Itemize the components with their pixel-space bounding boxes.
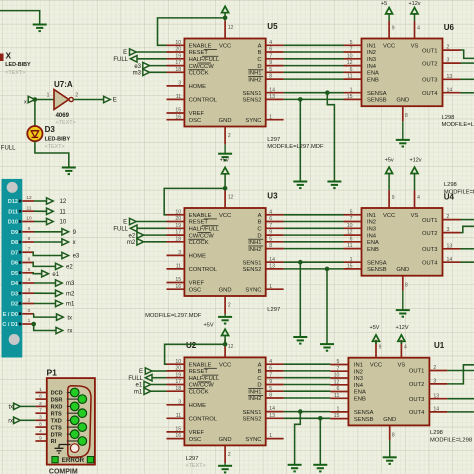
svg-text:VCC: VCC — [370, 363, 382, 369]
svg-text:8: 8 — [39, 422, 42, 428]
svg-text:15: 15 — [175, 108, 181, 114]
svg-text:CONTROL: CONTROL — [189, 267, 218, 273]
svg-text:CLOCK: CLOCK — [189, 71, 209, 77]
svg-text:IN3: IN3 — [354, 376, 363, 382]
svg-text:ENA: ENA — [367, 71, 379, 77]
terminal e1 (U2) — [144, 381, 151, 387]
svg-text:2: 2 — [75, 92, 78, 98]
U5 right pin numbers 4 6 7 9 5 8 14 13 1 — [269, 40, 275, 120]
svg-text:E: E — [123, 220, 127, 226]
svg-text:6: 6 — [269, 47, 272, 53]
svg-text:VS: VS — [398, 363, 406, 369]
svg-text:m1: m1 — [134, 389, 143, 395]
U5 right pin stubs — [266, 45, 284, 119]
terminal FULL (U5) — [130, 56, 137, 62]
svg-text:D6: D6 — [11, 261, 18, 267]
svg-text:U2: U2 — [186, 341, 197, 350]
wire tx to P1 RXD — [20, 405, 35, 407]
svg-text:8: 8 — [28, 236, 31, 242]
svg-text:INH2: INH2 — [248, 247, 261, 253]
svg-text:CLOCK: CLOCK — [189, 389, 209, 395]
U1 left pin stubs — [330, 365, 348, 419]
svg-text:IN2: IN2 — [354, 369, 363, 375]
U1 VS pin stub (pin 4) — [400, 340, 402, 358]
IC U4 L298 body — [362, 208, 443, 276]
svg-text:10: 10 — [175, 209, 181, 215]
svg-text:5: 5 — [337, 359, 340, 365]
svg-text:A: A — [258, 213, 262, 219]
ground (U6 GND pin) — [402, 121, 404, 140]
svg-text:9: 9 — [39, 435, 42, 441]
U2 GND pin stub (pin 2) — [224, 445, 226, 463]
svg-text:X: X — [6, 52, 12, 61]
svg-text:OUT1: OUT1 — [422, 218, 437, 224]
svg-text:13: 13 — [447, 74, 453, 80]
svg-text:12: 12 — [228, 25, 234, 31]
connector mounting hole bottom — [9, 334, 20, 345]
svg-text:SENS2: SENS2 — [242, 98, 261, 104]
wire +12V to U1 VS — [400, 341, 402, 344]
terminal FULL (U3) — [130, 225, 137, 231]
svg-text:SENSB: SENSB — [367, 98, 387, 104]
U1 output pin numbers 2 3 13 14 — [433, 365, 439, 412]
terminal e1 — [42, 271, 49, 277]
junction dot U5 SENS1 sense net — [325, 90, 330, 95]
svg-text:5: 5 — [350, 209, 353, 215]
svg-text:VCC: VCC — [383, 44, 395, 50]
svg-text:12: 12 — [228, 195, 234, 201]
svg-text:9: 9 — [269, 379, 272, 385]
svg-text:FULL: FULL — [1, 146, 16, 152]
svg-text:GND: GND — [383, 417, 396, 423]
svg-text:11: 11 — [334, 393, 339, 399]
svg-text:4: 4 — [269, 209, 272, 215]
svg-text:5: 5 — [269, 386, 272, 392]
U3 left pin numbers 10 20 19 17 18 3 11 15 16 — [175, 209, 181, 289]
svg-text:OUT3: OUT3 — [409, 397, 424, 403]
svg-text:10: 10 — [60, 220, 67, 226]
power +5v terminal above U5 — [222, 6, 229, 12]
svg-text:2: 2 — [447, 214, 450, 220]
svg-text:INH2: INH2 — [248, 77, 261, 83]
wires U2 phase outputs to U1 inputs — [284, 364, 331, 398]
svg-text:14: 14 — [269, 406, 275, 412]
ground (U5 SENS2) — [293, 182, 307, 189]
junction dot U2 SENS2 sense net — [318, 416, 323, 421]
terminal E (U5) — [130, 49, 137, 55]
svg-text:CW/CCW: CW/CCW — [189, 64, 215, 70]
U6 pin labels — [367, 44, 438, 104]
terminal e3 — [62, 252, 69, 258]
svg-text:7: 7 — [28, 246, 31, 252]
svg-text:4: 4 — [39, 429, 42, 435]
wire SENS1 net to ground (U5) — [327, 93, 334, 182]
wire +5v to U2 VCC — [224, 336, 226, 346]
svg-text:OSC: OSC — [189, 118, 202, 124]
svg-text:SENS1: SENS1 — [242, 260, 261, 266]
U1 output pin stubs — [429, 371, 447, 412]
svg-text:SENSA: SENSA — [354, 410, 374, 416]
svg-text:+5v: +5v — [220, 158, 229, 164]
connector pin D11 — [8, 205, 34, 215]
svg-text:+5V: +5V — [204, 322, 214, 328]
wire SENS2 net to ground (U2) — [319, 418, 321, 465]
svg-text:16: 16 — [175, 284, 181, 290]
U4 left pin stubs — [344, 215, 362, 269]
svg-text:IN4: IN4 — [354, 383, 364, 389]
svg-text:D2: D2 — [11, 302, 18, 308]
svg-text:DCD: DCD — [51, 391, 63, 397]
svg-text:IN1: IN1 — [367, 44, 376, 50]
wire junction to LED D3 — [34, 100, 36, 127]
svg-text:16: 16 — [175, 433, 181, 439]
ground (U1 GND pin) — [389, 440, 391, 457]
svg-text:C: C — [257, 227, 261, 233]
svg-text:10: 10 — [175, 359, 181, 365]
ground (U5 GND pin) — [224, 144, 226, 153]
wire 10 from header pin — [34, 221, 47, 223]
svg-text:D5: D5 — [11, 271, 18, 277]
svg-text:GND: GND — [396, 267, 409, 273]
wire U4 OUT2 to motor — [461, 226, 474, 232]
wire m3 to U5 CLOCK — [150, 71, 167, 73]
svg-text:DTR: DTR — [51, 432, 63, 438]
wire +5v to U5 VCC — [224, 13, 226, 21]
U5 right pin labels — [242, 44, 263, 124]
svg-text:19: 19 — [175, 372, 181, 378]
wire U1 OUT4 to motor — [447, 411, 474, 413]
U2 left pin numbers 10 20 19 17 18 3 11 15 16 — [175, 359, 181, 439]
svg-text:L298: L298 — [442, 115, 455, 121]
svg-text:RI: RI — [51, 439, 57, 445]
svg-text:15: 15 — [334, 413, 340, 419]
svg-text:MODFILE=L: MODFILE=L — [444, 190, 474, 196]
svg-text:8: 8 — [392, 432, 395, 438]
svg-text:13: 13 — [433, 393, 439, 399]
svg-text:e2: e2 — [129, 233, 136, 239]
LED X (cropped at edge) — [0, 54, 4, 62]
wire U4 OUT4 to motor — [461, 261, 474, 263]
svg-text:4: 4 — [269, 359, 272, 365]
U6 left pin numbers 5 7 10 12 6 11 1 15 — [347, 40, 353, 100]
svg-text:OUT2: OUT2 — [409, 382, 424, 388]
wire U2 SENS1 to U1 SENSA — [284, 411, 331, 413]
terminal x — [62, 239, 69, 245]
svg-text:1: 1 — [39, 387, 42, 393]
power +5v terminal above U2 — [222, 329, 229, 335]
terminal m2 — [56, 290, 63, 296]
svg-text:SYNC: SYNC — [245, 437, 261, 443]
svg-text:5: 5 — [28, 267, 31, 273]
junction dot U5 SENS2 sense net — [298, 97, 303, 102]
wire 9 from header pin — [34, 231, 62, 233]
svg-text:U3: U3 — [267, 192, 278, 201]
svg-text:m3: m3 — [133, 71, 142, 77]
connector mounting hole top — [7, 182, 18, 193]
svg-text:GND: GND — [219, 287, 232, 293]
svg-text:6: 6 — [39, 394, 42, 400]
svg-text:U6: U6 — [444, 23, 455, 32]
svg-text:11: 11 — [347, 243, 352, 249]
wire U1 OUT2 to motor — [447, 365, 474, 384]
U5 left pin labels — [188, 44, 231, 124]
ground (D3) — [62, 168, 76, 175]
svg-text:OUT4: OUT4 — [422, 91, 438, 97]
svg-text:D: D — [257, 64, 261, 70]
svg-text:D11: D11 — [8, 209, 18, 215]
svg-text:IN1: IN1 — [367, 213, 376, 219]
svg-text:OUT4: OUT4 — [422, 260, 438, 266]
svg-text:10: 10 — [347, 223, 353, 229]
svg-text:rx: rx — [67, 329, 72, 335]
svg-text:8: 8 — [405, 283, 408, 289]
svg-text:14: 14 — [447, 87, 453, 93]
svg-text:VCC: VCC — [219, 362, 231, 368]
svg-text:4: 4 — [417, 26, 420, 32]
svg-text:SENSB: SENSB — [354, 417, 374, 423]
svg-text:+5V: +5V — [370, 325, 380, 331]
svg-text:D: D — [257, 383, 261, 389]
svg-text:1: 1 — [269, 284, 272, 290]
wire SENS2 net to ground (U5) — [299, 99, 301, 181]
svg-text:9: 9 — [379, 345, 382, 351]
junction dot (U2 VCC/ENABLE) — [223, 342, 228, 347]
svg-text:+12v: +12v — [408, 1, 420, 7]
svg-text:SENS2: SENS2 — [242, 417, 261, 423]
svg-text:D4: D4 — [11, 281, 19, 287]
wire E to U5 RESET — [136, 51, 166, 53]
wire FULL to U5 HALF/FULL — [137, 58, 167, 60]
junction dot (U3 VCC/ENABLE) — [223, 186, 228, 191]
terminal tx — [57, 314, 64, 320]
svg-text:GND: GND — [219, 118, 232, 124]
svg-text:1: 1 — [269, 114, 272, 120]
connector pin D9 — [11, 226, 34, 236]
U2 VCC pin stub (pin 12) — [224, 340, 226, 358]
wire +5 to U6 VCC — [388, 14, 390, 21]
svg-text:OUT3: OUT3 — [422, 78, 437, 84]
svg-text:7: 7 — [269, 223, 272, 229]
svg-text:U7:A: U7:A — [54, 80, 73, 89]
svg-text:4: 4 — [28, 277, 31, 283]
IC U6 L298 body — [362, 39, 443, 107]
wire from left edge to ground (top-left) — [0, 11, 40, 25]
ground (U3 SENS1) — [293, 337, 307, 344]
svg-text:<TEXT>: <TEXT> — [56, 120, 76, 126]
U2 left pin stubs — [167, 364, 185, 438]
svg-text:20: 20 — [175, 216, 181, 222]
svg-text:MODFILE=L297.MDF: MODFILE=L297.MDF — [267, 144, 324, 150]
svg-text:1: 1 — [47, 92, 50, 98]
svg-text:HOME: HOME — [189, 84, 207, 90]
svg-text:1: 1 — [350, 257, 353, 263]
svg-text:+12v: +12v — [409, 157, 421, 163]
svg-text:6: 6 — [337, 386, 340, 392]
wire FULL to U3 HALF/FULL — [137, 227, 167, 229]
P1 pin labels DCD DSR RXD RTS TXD CTS DTR RI — [51, 391, 63, 446]
svg-text:B: B — [258, 50, 262, 56]
svg-text:12: 12 — [228, 344, 234, 350]
ground (U2 SENS1) — [288, 465, 302, 472]
svg-text:<TEXT>: <TEXT> — [5, 70, 25, 76]
wire SENS1 net to ground (U2) — [295, 412, 301, 465]
svg-text:D3: D3 — [11, 291, 18, 297]
svg-text:11: 11 — [27, 205, 32, 211]
svg-text:MODFILE=L: MODFILE=L — [442, 122, 474, 128]
terminal 12 — [47, 198, 54, 204]
svg-text:2: 2 — [228, 133, 231, 139]
wire U4 OUT1 to motor — [461, 219, 474, 221]
svg-text:14: 14 — [433, 407, 439, 413]
svg-text:SENS2: SENS2 — [242, 267, 261, 273]
svg-text:12: 12 — [347, 230, 353, 236]
svg-text:HALF/FULL: HALF/FULL — [189, 57, 220, 63]
terminal 9 — [62, 229, 69, 235]
svg-text:15: 15 — [347, 264, 353, 270]
P1 DB9 pin 5 circle (shield) — [70, 444, 79, 453]
svg-text:L297: L297 — [267, 307, 280, 313]
svg-text:13: 13 — [269, 264, 275, 270]
svg-text:9: 9 — [269, 60, 272, 66]
wire +12v to U4 VS — [414, 174, 416, 191]
inverter U7:A — [54, 90, 69, 110]
svg-text:GND: GND — [396, 98, 409, 104]
svg-text:VS: VS — [411, 44, 419, 50]
svg-text:A: A — [258, 44, 262, 50]
U1 GND pin stub (pin 8) — [389, 425, 391, 440]
wire D3 to ground — [35, 141, 69, 167]
junction dot at U7:A input — [33, 97, 38, 102]
svg-text:VCC: VCC — [219, 44, 231, 50]
svg-text:D9: D9 — [11, 230, 18, 236]
svg-text:IN3: IN3 — [367, 227, 376, 233]
wire U3 ENABLE to VCC net — [164, 188, 225, 214]
U1 VCC pin stub (pin 9) — [375, 340, 377, 358]
junction dot on D1 wire — [31, 322, 36, 327]
terminal m3 — [56, 280, 63, 286]
U1 pin labels — [354, 363, 425, 423]
U2 right pin stubs — [266, 364, 284, 438]
svg-text:SYNC: SYNC — [245, 118, 261, 124]
svg-text:m2: m2 — [66, 292, 75, 298]
wire U6 OUT2 to motor — [461, 62, 474, 64]
svg-text:e1: e1 — [136, 383, 143, 389]
connector pin D6 — [11, 257, 34, 267]
svg-text:HALF/FULL: HALF/FULL — [189, 227, 220, 233]
wire U6 OUT1 to motor — [461, 50, 474, 58]
svg-text:<TEXT>: <TEXT> — [45, 144, 65, 150]
svg-text:HALF/FULL: HALF/FULL — [189, 376, 220, 382]
svg-text:OUT1: OUT1 — [422, 48, 437, 54]
terminal m3 (U5) — [143, 69, 150, 75]
svg-text:IN2: IN2 — [367, 50, 376, 56]
U6 output pin numbers 2 3 13 14 — [447, 45, 453, 94]
svg-text:tx: tx — [9, 405, 14, 411]
svg-text:GND: GND — [219, 437, 232, 443]
connector pin D8 — [11, 236, 34, 246]
svg-text:2: 2 — [228, 303, 231, 309]
svg-text:C / D1: C / D1 — [2, 322, 18, 328]
U5 GND pin stub (pin 2) — [224, 127, 226, 145]
U4 output pin numbers 2 3 13 14 — [447, 214, 453, 263]
terminal 10 — [47, 218, 54, 224]
svg-text:20: 20 — [175, 366, 181, 372]
svg-text:OUT3: OUT3 — [422, 247, 437, 253]
U3 right pin stubs — [266, 215, 284, 289]
svg-text:L298: L298 — [430, 430, 443, 436]
svg-text:INH1: INH1 — [248, 240, 261, 246]
svg-text:CW/CCW: CW/CCW — [189, 233, 215, 239]
svg-text:8: 8 — [269, 74, 272, 80]
svg-text:6: 6 — [269, 216, 272, 222]
U4 GND pin stub (pin 8) — [402, 276, 404, 291]
wire +5v to U4 VCC — [388, 174, 390, 191]
U4 VS pin stub (pin 4) — [414, 190, 416, 208]
wire U1 OUT3 to motor — [447, 398, 474, 400]
svg-text:7: 7 — [39, 408, 42, 414]
svg-text:9: 9 — [269, 230, 272, 236]
terminal e2 — [56, 263, 63, 269]
U6 GND pin stub (pin 8) — [402, 106, 404, 121]
svg-text:6: 6 — [350, 67, 353, 73]
svg-text:4: 4 — [404, 345, 407, 351]
svg-text:VREF: VREF — [189, 430, 205, 436]
svg-text:2: 2 — [228, 452, 231, 458]
wire e1 from header pin — [33, 272, 42, 275]
P1 DB9 connector outline — [68, 386, 91, 457]
terminal m1 — [56, 300, 63, 306]
wire e3 to U5 CW/CCW — [150, 65, 167, 67]
wires U3 phase outputs to U4 inputs — [284, 215, 344, 249]
terminal x (input of U7:A) — [28, 96, 35, 102]
power +5v terminal above U3 — [222, 167, 229, 173]
svg-text:D12: D12 — [8, 199, 18, 205]
svg-text:5: 5 — [269, 236, 272, 242]
terminal E (U2) — [145, 368, 152, 374]
svg-text:3: 3 — [39, 415, 42, 421]
U6 VCC pin stub (pin 9) — [388, 21, 390, 39]
svg-text:D10: D10 — [8, 220, 18, 226]
svg-text:3: 3 — [447, 58, 450, 64]
connector pin D7 — [11, 246, 34, 256]
terminal E (U3) — [130, 218, 137, 224]
svg-text:3: 3 — [178, 250, 181, 256]
terminal e2 (U3) — [137, 232, 144, 238]
wires U5 phase outputs A-D INH1 INH2 to U6 inputs — [284, 45, 344, 79]
svg-text:FULL: FULL — [128, 376, 143, 382]
junction dot (U5 VCC/ENABLE) — [223, 15, 228, 20]
svg-text:1: 1 — [28, 318, 31, 324]
svg-text:SYNC: SYNC — [245, 287, 261, 293]
P1 internal ground symbol — [55, 445, 71, 454]
svg-text:19: 19 — [175, 223, 181, 229]
svg-text:11: 11 — [176, 94, 181, 100]
svg-text:ERROR: ERROR — [62, 457, 85, 464]
svg-text:FULL: FULL — [113, 227, 128, 233]
wire U7:A output to terminal E — [73, 99, 103, 101]
svg-text:RESET: RESET — [189, 50, 209, 56]
U3 left pin labels — [188, 213, 231, 293]
wire m2 to U3 CLOCK — [144, 241, 167, 243]
U6 VS pin stub (pin 4) — [414, 21, 416, 39]
svg-text:1: 1 — [350, 87, 353, 93]
wire x terminal to U7:A input — [35, 99, 54, 101]
svg-text:m2: m2 — [127, 240, 136, 246]
svg-text:9: 9 — [392, 26, 395, 32]
svg-text:17: 17 — [175, 230, 181, 236]
svg-text:13: 13 — [269, 94, 275, 100]
power +12v terminal above U6 — [411, 8, 418, 14]
